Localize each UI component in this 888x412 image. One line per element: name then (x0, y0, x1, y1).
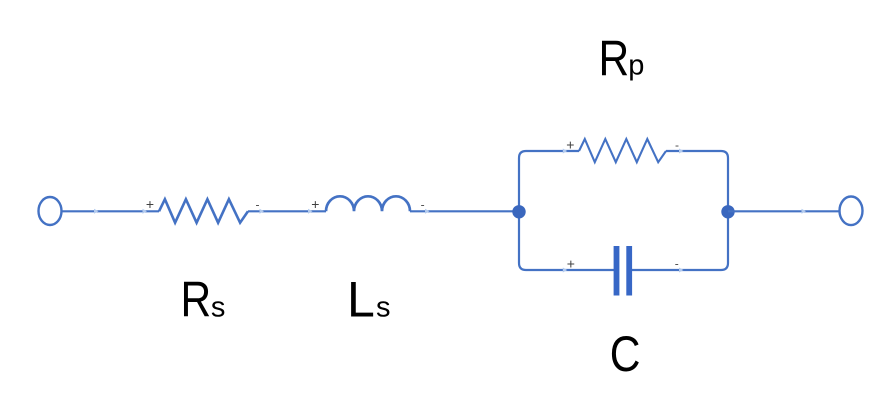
right terminal (840, 197, 863, 226)
capacitor C plate right (626, 246, 632, 296)
label Rp (598, 30, 629, 86)
svg-text:-: - (256, 197, 260, 211)
svg-text:s: s (376, 292, 391, 324)
svg-text:s: s (211, 292, 226, 324)
resistor Rs (159, 199, 248, 223)
wire marker (425, 209, 430, 214)
svg-text:-: - (675, 138, 679, 152)
wire marker (308, 209, 313, 214)
wire marker (802, 209, 807, 214)
svg-text:+: + (566, 137, 574, 153)
wire marker (260, 209, 265, 214)
wire marker (563, 149, 568, 154)
svg-text:-: - (675, 257, 679, 271)
inductor Ls (326, 196, 410, 211)
wire marker (94, 209, 99, 214)
svg-text:p: p (628, 49, 644, 81)
capacitor C plate left (614, 246, 620, 296)
label Rs (181, 271, 212, 327)
svg-text:-: - (421, 198, 425, 212)
svg-text:R: R (181, 271, 212, 327)
resistor Rp (579, 139, 666, 162)
svg-text:L: L (347, 272, 375, 328)
wire Ls to node A (410, 210, 519, 212)
svg-text:+: + (311, 196, 319, 212)
parallel loop right branch wire (630, 151, 728, 270)
parallel loop left branch wire (519, 151, 616, 270)
node B junction dot (721, 205, 734, 218)
svg-text:C: C (610, 326, 641, 382)
wire node B to right terminal (728, 210, 840, 212)
wire Rs to Ls (248, 210, 326, 212)
wire marker (679, 268, 684, 273)
wire left terminal to Rs (62, 210, 159, 212)
svg-text:+: + (567, 256, 575, 272)
wire marker (679, 149, 684, 154)
svg-text:R: R (598, 30, 629, 86)
label C (610, 326, 641, 382)
wire marker (563, 268, 568, 273)
svg-text:+: + (146, 196, 154, 212)
wire marker (143, 209, 148, 214)
left terminal (39, 197, 62, 225)
node A junction dot (512, 205, 525, 218)
